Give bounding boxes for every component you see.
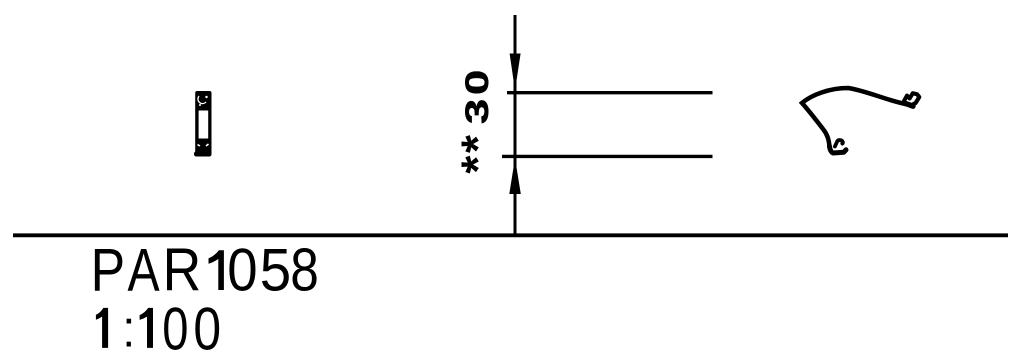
post component P1 (left fixture bar) <box>194 91 212 157</box>
svg-text:0: 0 <box>459 70 495 95</box>
wire: upper extension line <box>507 91 713 94</box>
svg-text:0: 0 <box>227 237 257 304</box>
svg-text:*: * <box>451 156 503 174</box>
svg-text:A: A <box>128 236 161 303</box>
svg-text:*: * <box>451 135 503 153</box>
svg-text:3: 3 <box>459 99 495 124</box>
svg-text:8: 8 <box>290 236 319 304</box>
arrowhead up (bottom of dimension) <box>509 158 521 194</box>
freehand curve F1 (hose/cable sketch) <box>802 88 919 153</box>
arrowhead down (top of dimension) <box>510 54 521 91</box>
title label PAR1058 <box>91 236 319 304</box>
wire: lower extension line <box>502 155 713 158</box>
bottom end connector <box>829 146 846 153</box>
svg-text:0: 0 <box>162 296 188 363</box>
svg-text:0: 0 <box>193 295 221 362</box>
right end connector <box>904 93 919 105</box>
svg-text:P: P <box>91 236 125 303</box>
ground line (baseline of drawing) <box>13 233 1008 237</box>
wire: dimension vertical line <box>514 15 517 236</box>
scale label 1:100 <box>96 295 221 363</box>
value label **30 (rotated dimension text) <box>451 70 503 174</box>
svg-text:5: 5 <box>260 237 291 304</box>
